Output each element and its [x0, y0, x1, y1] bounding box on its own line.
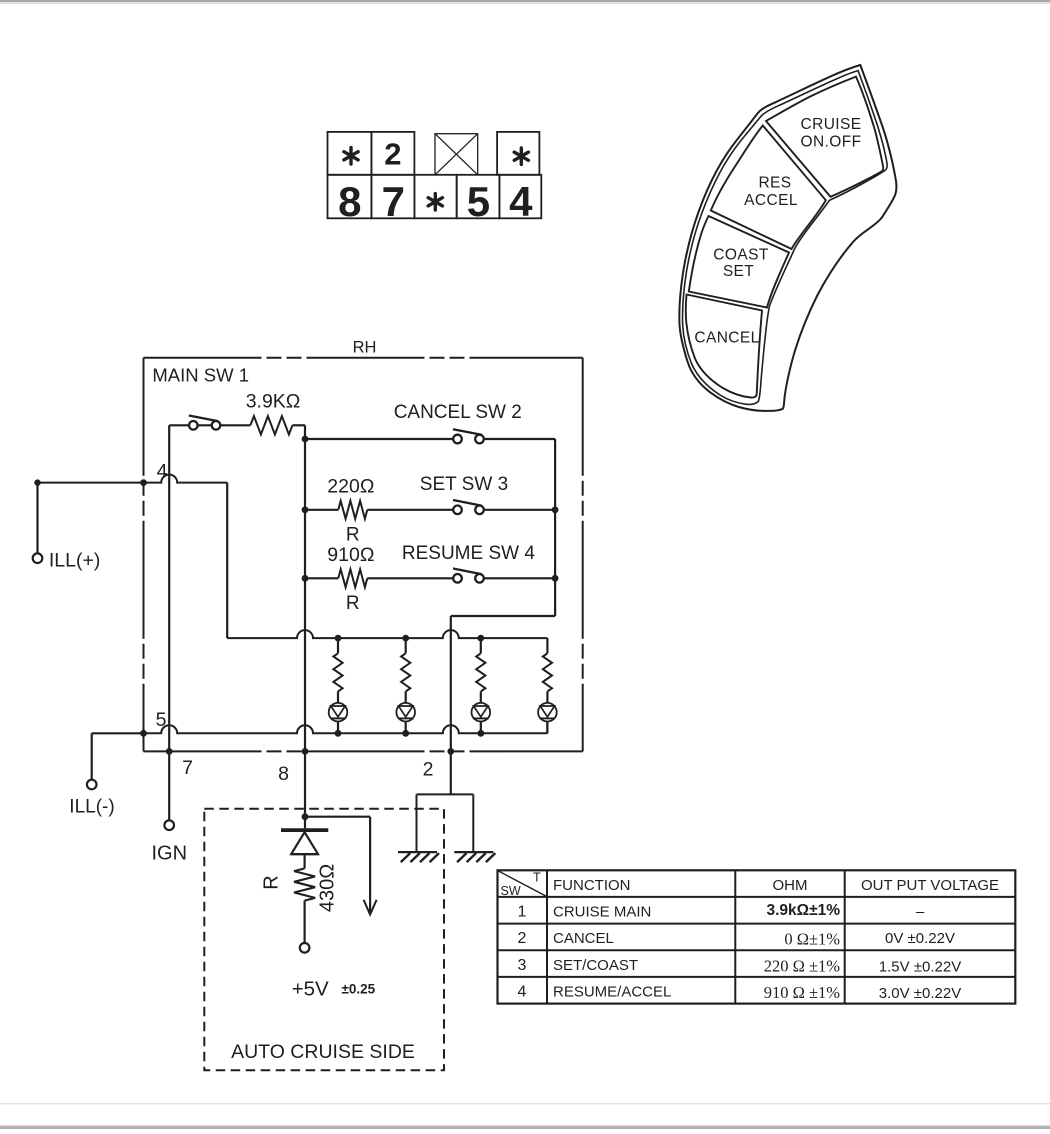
wire IGN vertical: [168, 425, 170, 820]
svg-text:2: 2: [384, 137, 401, 172]
svg-text:4: 4: [509, 178, 533, 225]
svg-text:CANCEL: CANCEL: [694, 330, 759, 347]
junction node cancel row: [302, 436, 309, 443]
junction ILL(+) corner: [34, 479, 40, 485]
connector pin grid top row cell (pin 2): [371, 132, 414, 175]
wire cancel row: [305, 438, 453, 440]
pin 7 node: [166, 748, 173, 755]
svg-text:2: 2: [423, 759, 434, 781]
junction lamp2 top: [402, 635, 409, 642]
terminal IGN: [164, 820, 174, 830]
svg-text:RH: RH: [353, 339, 377, 357]
resistor lamp1: [337, 638, 339, 653]
ground G1: [398, 851, 437, 853]
wire lamp1 mid: [337, 691, 339, 703]
main switch SW 1: [189, 421, 198, 430]
junction lamp1 top: [335, 635, 342, 642]
cancel switch SW 2: [453, 435, 462, 444]
label COAST SET: [713, 247, 769, 281]
svg-text:R: R: [346, 593, 360, 614]
pin 5 node: [140, 730, 147, 737]
svg-text:R: R: [346, 525, 360, 546]
pin label * (top-left cell): [344, 148, 358, 164]
connector keyway crossed box: [435, 134, 478, 175]
wire ILL(+) to pin 4: [36, 483, 38, 554]
wire set row: [305, 509, 338, 511]
junction arrow branch: [302, 813, 309, 820]
svg-text:220Ω: 220Ω: [327, 476, 374, 498]
junction node set row: [302, 506, 309, 513]
svg-text:1.5V ±0.22V: 1.5V ±0.22V: [879, 958, 961, 975]
wire pin 8 vertical (inside box): [304, 436, 306, 751]
auto cruise side dashed box: [204, 809, 444, 1071]
svg-text:0 Ω±1%: 0 Ω±1%: [784, 930, 840, 949]
wire lamp2 mid: [405, 691, 407, 703]
measurement arrow: [305, 816, 370, 818]
svg-text:910Ω: 910Ω: [327, 544, 374, 566]
connector pin grid top row cell (pin * right): [497, 132, 539, 175]
resistor lamp3: [480, 638, 482, 653]
svg-text:RESUME SW 4: RESUME SW 4: [402, 543, 535, 564]
svg-text:MAIN SW 1: MAIN SW 1: [152, 365, 249, 386]
wire lamp4 mid: [546, 691, 548, 703]
resistor 3.9KΩ: [250, 416, 292, 434]
svg-text:5: 5: [467, 178, 490, 225]
table header diagonal: [498, 871, 547, 897]
svg-text:SET: SET: [723, 263, 754, 280]
svg-text:COAST: COAST: [713, 247, 769, 264]
button COAST SET: [689, 216, 789, 308]
wire lamp3 mid: [480, 691, 482, 703]
svg-text:ACCEL: ACCEL: [744, 192, 798, 209]
junction lamp3 bottom: [477, 730, 484, 737]
button CRUISE ON.OFF: [766, 77, 883, 197]
label RES ACCEL: [744, 175, 798, 210]
svg-text:220 Ω ±1%: 220 Ω ±1%: [764, 956, 841, 975]
wire lamp3 bottom: [480, 722, 482, 734]
button CANCEL: [686, 295, 762, 398]
wire lamp cathode bus: [144, 725, 548, 733]
svg-text:1: 1: [518, 903, 527, 920]
svg-text:T: T: [533, 871, 541, 885]
svg-text:7: 7: [382, 178, 405, 225]
junction node resume right: [552, 575, 559, 582]
svg-text:430Ω: 430Ω: [317, 864, 339, 912]
specification table grid: [498, 870, 1016, 1003]
svg-text:–: –: [916, 903, 925, 920]
connector boundary box RH: [144, 358, 583, 752]
svg-text:8: 8: [338, 178, 361, 225]
svg-text:0V ±0.22V: 0V ±0.22V: [885, 930, 955, 947]
svg-text:IGN: IGN: [152, 843, 188, 865]
svg-text:3: 3: [518, 957, 527, 974]
svg-text:7: 7: [182, 757, 193, 779]
svg-text:±0.25: ±0.25: [342, 981, 376, 996]
resistor 220Ω (R): [338, 501, 367, 519]
ground G2: [454, 851, 493, 853]
wire pin 2 to ground bar: [450, 751, 452, 794]
wire lamp anode bus: [227, 630, 547, 638]
pin 4 node: [140, 479, 147, 486]
svg-text:SET SW 3: SET SW 3: [420, 474, 508, 495]
junction node resume row: [302, 575, 309, 582]
junction lamp2 bottom: [402, 730, 409, 737]
svg-text:910 Ω ±1%: 910 Ω ±1%: [764, 983, 841, 1002]
wire lamp1 bottom: [337, 722, 339, 734]
pin 2 node: [447, 748, 454, 755]
svg-text:OHM: OHM: [773, 877, 808, 894]
svg-text:FUNCTION: FUNCTION: [553, 877, 631, 894]
svg-text:CANCEL: CANCEL: [553, 930, 614, 947]
pin label * (bottom row): [428, 194, 442, 210]
table row 3: [518, 956, 962, 975]
terminal ILL(+): [33, 553, 43, 563]
label CRUISE ON.OFF: [801, 116, 862, 151]
diode D (zener bar): [281, 828, 328, 832]
terminal ILL(-): [87, 780, 97, 790]
svg-text:AUTO CRUISE SIDE: AUTO CRUISE SIDE: [231, 1041, 415, 1063]
svg-text:CRUISE: CRUISE: [801, 116, 862, 133]
resume switch SW 4: [453, 574, 462, 583]
diode D triangle: [291, 832, 318, 854]
svg-text:SW: SW: [501, 884, 521, 898]
wire lamp4 bottom: [546, 722, 548, 734]
illumination lamp 1: [329, 703, 348, 722]
svg-text:8: 8: [278, 763, 289, 785]
svg-text:+5V: +5V: [292, 977, 329, 1000]
svg-text:OUT PUT VOLTAGE: OUT PUT VOLTAGE: [861, 877, 999, 894]
wire pin 2 vertical: [450, 616, 452, 751]
button RES ACCEL: [711, 126, 826, 250]
svg-text:SET/COAST: SET/COAST: [553, 957, 638, 974]
svg-text:3.9kΩ±1%: 3.9kΩ±1%: [766, 902, 840, 919]
wire pin 8 to diode: [304, 751, 306, 828]
svg-text:ON.OFF: ON.OFF: [801, 134, 862, 151]
resistor lamp2: [405, 638, 407, 653]
illumination lamp 4: [538, 703, 557, 722]
svg-text:3.9KΩ: 3.9KΩ: [246, 391, 301, 413]
illumination lamp 2: [396, 703, 415, 722]
svg-text:5: 5: [156, 709, 167, 731]
junction lamp1 bottom: [335, 730, 342, 737]
svg-text:4: 4: [157, 461, 168, 483]
svg-text:CANCEL SW 2: CANCEL SW 2: [394, 402, 522, 423]
svg-text:ILL(-): ILL(-): [69, 797, 114, 818]
terminal +5V: [300, 943, 310, 953]
svg-text:ILL(+): ILL(+): [49, 550, 100, 572]
svg-text:3.0V ±0.22V: 3.0V ±0.22V: [879, 985, 961, 1002]
svg-text:4: 4: [518, 983, 527, 1000]
wire resume row: [305, 577, 338, 579]
pin 8 node: [302, 748, 309, 755]
junction lamp3 top: [477, 635, 484, 642]
wire diode to resistor: [304, 854, 306, 868]
wire switch return right vertical: [554, 505, 556, 578]
steering switch pod outline: [679, 65, 896, 411]
svg-text:2: 2: [518, 930, 527, 947]
svg-text:RESUME/ACCEL: RESUME/ACCEL: [553, 983, 671, 1000]
wire lamp2 bottom: [405, 722, 407, 734]
wire main switch row: [169, 424, 250, 426]
resistor lamp4: [543, 653, 552, 691]
junction node right set: [552, 506, 559, 513]
ground bar: [417, 793, 474, 795]
resistor R 430Ω: [294, 868, 315, 900]
wire resistor to +5V terminal: [304, 901, 306, 944]
svg-text:CRUISE MAIN: CRUISE MAIN: [553, 903, 651, 920]
resistor 910Ω (R): [338, 569, 367, 587]
svg-text:RES: RES: [758, 175, 791, 192]
wire to ILL(-): [92, 732, 144, 734]
connector pin grid top row cell (pin *): [328, 132, 372, 175]
table row 4: [518, 983, 962, 1002]
connector pin grid bottom row cells: [328, 175, 542, 219]
svg-text:R: R: [261, 875, 283, 889]
pin label * (top-right cell): [514, 148, 528, 164]
set switch SW 3: [453, 506, 462, 515]
table row 1: [518, 903, 925, 920]
table row 2: [518, 930, 955, 949]
illumination lamp 3: [472, 703, 491, 722]
